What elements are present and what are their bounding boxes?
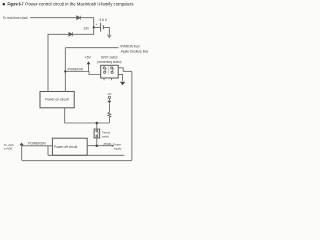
svg-text:+5V: +5V xyxy=(107,92,111,96)
svg-text:To real-time clock: To real-time clock xyxy=(3,16,28,20)
svg-text:3.6V: 3.6V xyxy=(83,26,89,30)
svg-text:Apple Desktop Bus: Apple Desktop Bus xyxy=(121,49,149,53)
svg-text:+5V: +5V xyxy=(85,56,92,60)
svg-text:POWERON: POWERON xyxy=(28,141,46,145)
svg-text:Power-on circuit: Power-on circuit xyxy=(45,98,68,102)
svg-text:Figure 6-7: Figure 6-7 xyxy=(8,2,24,7)
svg-text:/POWERON: /POWERON xyxy=(67,67,83,71)
svg-text:+: + xyxy=(96,22,98,26)
svg-text:(momentary action): (momentary action) xyxy=(97,60,121,64)
svg-text:supply: supply xyxy=(114,147,122,151)
svg-text:Power-control circuit in the M: Power-control circuit in the Macintosh I… xyxy=(25,2,133,7)
svg-text:Power-off circuit: Power-off circuit xyxy=(54,145,77,149)
svg-text:/PWR: /PWR xyxy=(104,142,112,146)
svg-text:switch: switch xyxy=(102,135,109,139)
svg-text:/PWRON from: /PWRON from xyxy=(120,45,140,49)
svg-text:3.6 V: 3.6 V xyxy=(99,18,108,22)
svg-text:on ADB: on ADB xyxy=(4,147,12,151)
